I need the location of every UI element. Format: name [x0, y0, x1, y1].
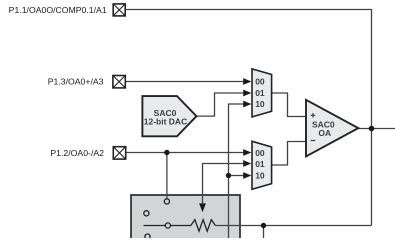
svg-text:10: 10 [255, 99, 265, 109]
wire: P1.2 branch down to switch [166, 153, 168, 199]
svg-text:01: 01 [255, 88, 265, 98]
svg-text:01: 01 [255, 159, 265, 169]
svg-text:10: 10 [255, 170, 265, 180]
wire: P1.3 to upper mux 00 [126, 81, 244, 83]
switch S4 contact [145, 234, 150, 239]
junction dot: op-amp output on right bus [369, 126, 375, 132]
arrowhead: lower mux input 10 [243, 172, 251, 179]
wire: feedback branch to lower mux 10 [229, 175, 244, 177]
wire: lower mux output staircase to op-amp - input [272, 142, 306, 166]
svg-text:00: 00 [255, 77, 265, 87]
resistor network box [131, 195, 240, 240]
wire: S3 to resistor [171, 225, 191, 227]
svg-text:12-bit DAC: 12-bit DAC [144, 116, 187, 126]
wire: upper mux output staircase to op-amp + input [272, 93, 306, 117]
mux M2 (lower input mux) [252, 141, 272, 189]
wire: stub down from bottom bus junction [263, 226, 265, 239]
wire: wiper tap up and right to lower mux 01 [203, 164, 244, 204]
switch S1 contact [164, 199, 169, 204]
switch S2 contact [144, 211, 149, 216]
op-amp U1 SAC0 OA [306, 100, 358, 157]
svg-text:P1.2/OA0-/A2: P1.2/OA0-/A2 [50, 148, 104, 158]
resistor R zigzag [191, 220, 216, 232]
junction dot: bottom bus stub [261, 223, 266, 228]
pin P1.1/OA0O/COMP0.1/A1 terminal [113, 4, 125, 16]
wire: top bus from P1.1 pin right then down right side [125, 10, 371, 226]
arrowhead: upper mux input 10 [243, 101, 251, 108]
arrowhead: upper mux input 01 [243, 90, 251, 97]
DAC block SAC0 12-bit DAC [142, 96, 196, 136]
svg-text:P1.3/OA0+/A3: P1.3/OA0+/A3 [48, 77, 104, 87]
svg-text:OA: OA [318, 128, 331, 138]
pin P1.2/OA0-/A2 terminal [113, 147, 125, 159]
arrowhead: lower mux input 01 [243, 160, 251, 167]
arrowhead: lower mux input 00 [243, 149, 251, 156]
wire: bottom bus from resistor to right bus [215, 225, 371, 227]
switch S3 contact [165, 223, 170, 228]
pin P1.3/OA0+/A3 terminal [113, 76, 125, 88]
junction dot: feedback to lower mux 10 [226, 173, 231, 178]
wire: op-amp output to right edge [358, 128, 395, 130]
svg-text:00: 00 [255, 148, 265, 158]
wire: feedback vertical through box, to upper mux 10 [229, 104, 244, 240]
junction dot: P1.2 branch [164, 150, 169, 155]
wire: P1.2 to lower mux 00 [126, 152, 244, 154]
arrowhead: upper mux input 00 [243, 78, 251, 85]
arrowhead: wiper pointing down at resistor [199, 203, 206, 212]
wire: stub left of S3 [144, 225, 166, 227]
svg-text:P1.1/OA0O/COMP0.1/A1: P1.1/OA0O/COMP0.1/A1 [9, 5, 107, 15]
mux M1 (upper input mux) [252, 69, 272, 117]
wire: DAC output up to upper mux 01 [197, 93, 244, 116]
